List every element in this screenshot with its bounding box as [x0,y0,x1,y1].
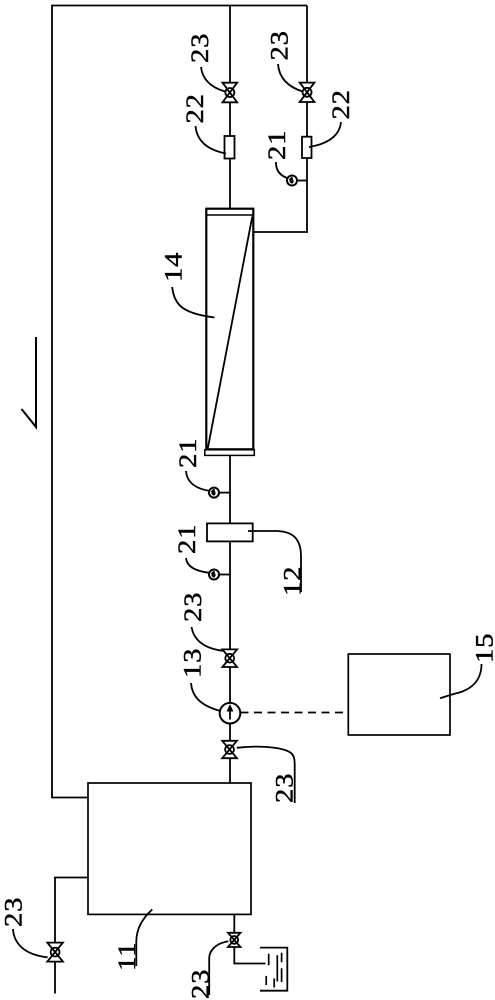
svg-text:23: 23 [272,773,299,803]
svg-text:22: 22 [328,89,355,119]
svg-text:23: 23 [188,969,215,999]
svg-text:11: 11 [114,942,141,971]
svg-text:13: 13 [180,648,207,678]
svg-text:21: 21 [264,130,291,160]
svg-text:23: 23 [1,897,28,927]
svg-text:21: 21 [175,438,202,468]
svg-text:23: 23 [266,30,293,60]
svg-text:14: 14 [161,252,188,282]
svg-text:12: 12 [280,566,307,596]
svg-text:22: 22 [182,93,209,123]
svg-text:23: 23 [187,33,214,63]
svg-text:15: 15 [472,633,495,663]
svg-text:21: 21 [174,524,201,554]
svg-text:23: 23 [180,592,207,622]
